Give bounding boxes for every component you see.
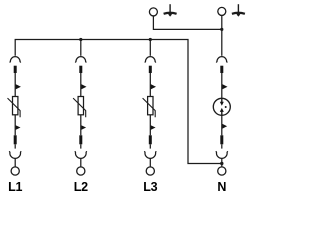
varistor L2: [73, 97, 86, 118]
wire L3 varistor to pin2: [149, 115, 151, 136]
wire L1 pin2 to socket: [14, 144, 16, 148]
svg-text:L2: L2: [74, 180, 88, 194]
junction dot bus1/L3: [149, 38, 152, 41]
wire N spark gap to pin2: [221, 115, 223, 135]
wire L1 varistor to pin2: [14, 115, 16, 136]
connector socket top N: [216, 57, 227, 63]
connector socket top L2: [75, 57, 86, 63]
disconnect arrow L2 bottom: [81, 125, 86, 130]
junction dot bus1/L2: [79, 38, 82, 41]
connector pin L1 top: [14, 66, 17, 73]
connector socket top L3: [145, 57, 156, 63]
connector socket top L1: [10, 57, 21, 63]
disconnect arrow L3 top: [151, 84, 156, 89]
junction dot bus2/N wire: [220, 28, 223, 31]
junction dot N node: [220, 162, 223, 165]
wire L2 pin2 to socket: [80, 144, 82, 148]
varistor L1: [8, 97, 21, 118]
disconnect arrow L1 bottom: [16, 125, 21, 130]
wire L2 top: [80, 40, 82, 56]
connector pin L2 bottom: [79, 135, 82, 144]
wire L3 pin to varistor: [149, 73, 151, 97]
wire L2 varistor to pin2: [80, 115, 82, 136]
wire L3 top: [149, 40, 151, 56]
svg-text:L3: L3: [143, 180, 157, 194]
connector socket bottom L1: [9, 151, 21, 158]
wire PE2 down to N branch top: [221, 15, 223, 55]
connector socket bottom L2: [75, 151, 87, 158]
ground symbol 2: [232, 4, 245, 16]
terminal PE2 (top earth terminal circle, right): [218, 7, 226, 15]
svg-text:L1: L1: [8, 180, 22, 194]
wire N pin2 to socket: [221, 144, 223, 148]
wire L2 pin to varistor: [80, 73, 82, 97]
wire L1 pin to varistor: [14, 73, 16, 97]
disconnect arrow L1 top: [16, 84, 21, 89]
ground symbol 1: [164, 4, 177, 16]
connector socket bottom L3: [144, 151, 156, 158]
wire L2 socket to terminal: [80, 158, 82, 167]
connector pin L2 top: [79, 66, 82, 73]
disconnect arrow L2 top: [81, 84, 86, 89]
wire PE1 down and right to N branch (bus2): [153, 16, 221, 30]
connector pin L3 top: [149, 66, 152, 73]
svg-text:N: N: [217, 180, 226, 194]
connector pin L1 bottom: [14, 135, 17, 144]
disconnect arrow N bottom: [222, 124, 227, 129]
wire N socket to terminal: [221, 158, 223, 167]
connector pin N top: [220, 66, 223, 73]
connector pin L3 bottom: [149, 135, 152, 144]
wire L1 socket to terminal: [14, 158, 16, 167]
terminal circle L2: [77, 167, 85, 175]
wire L3 socket to terminal: [149, 158, 151, 167]
spark gap (gas discharge tube): [213, 98, 230, 115]
disconnect arrow L3 bottom: [151, 125, 156, 130]
wire N pin to spark gap: [221, 73, 223, 99]
terminal circle L1: [11, 167, 19, 175]
wire L3 pin2 to socket: [149, 144, 151, 148]
connector pin N bottom: [220, 135, 223, 144]
terminal circle L3: [146, 167, 154, 175]
terminal PE1 (top earth terminal circle, left): [149, 8, 157, 16]
wire bus1 (tops of L1,L2,L3 to N node): [15, 40, 222, 164]
varistor L3: [143, 97, 156, 118]
connector socket bottom N: [216, 151, 228, 158]
terminal circle N: [218, 167, 226, 175]
disconnect arrow N top: [222, 84, 227, 89]
